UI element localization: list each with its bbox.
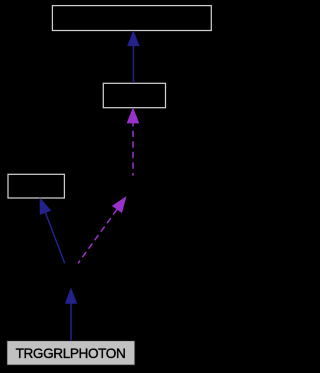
edge: middle box -> top box (blue solid inheritance arrow) <box>128 32 139 83</box>
edge: lower hidden node -> right hidden node (purple dashed diagonal arrow) <box>78 197 126 263</box>
edge: hidden node -> middle box (purple dashed usage arrow) <box>127 109 138 176</box>
node: middle box (empty) <box>103 83 165 107</box>
node: left box (empty) <box>8 174 64 198</box>
node: top box (empty) <box>52 6 211 31</box>
edge: TRGGRLPHOTON -> lower hidden node (blue solid arrow) <box>66 289 77 341</box>
edge: lower hidden node -> left box (blue solid diagonal arrow) <box>40 199 64 263</box>
node: TRGGRLPHOTON <box>7 341 135 366</box>
svg-text:TRGGRLPHOTON: TRGGRLPHOTON <box>16 346 126 361</box>
